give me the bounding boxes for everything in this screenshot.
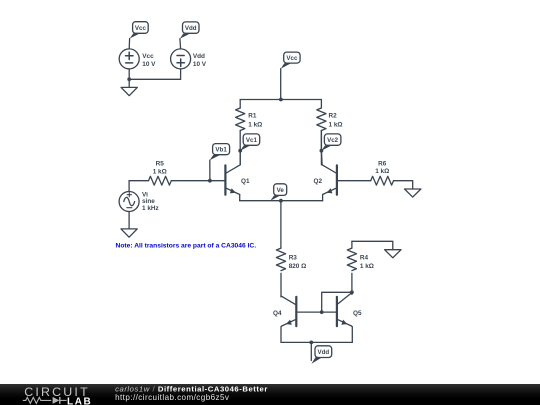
svg-text:1 kΩ: 1 kΩ (329, 121, 343, 128)
wire Vi to R5 (129, 180, 148, 182)
wire Q5 emitter riser (351, 326, 352, 343)
wire Q4 collector to R3 (280, 295, 282, 298)
flag Vcc (center top) (281, 52, 300, 69)
wire Q2 emitter riser (322, 195, 324, 201)
wire Q4-Q5 base rail (296, 311, 337, 313)
wire bottom emitter rail (281, 341, 352, 343)
ground (R4) (385, 250, 401, 258)
junction node Vc1 (238, 149, 242, 153)
resistor R4 1k (347, 241, 356, 292)
wire Q2 collector to R2 (320, 131, 323, 165)
wire Q4 emitter riser (281, 326, 282, 343)
junction node Vdd tap (309, 341, 313, 345)
svg-text:Vcc: Vcc (142, 53, 154, 60)
svg-text:R3: R3 (289, 255, 298, 262)
wire Vi bottom to ground (128, 212, 130, 229)
svg-text:Vdd: Vdd (193, 53, 205, 60)
transistor Q4 NPN (left-facing) (281, 296, 296, 326)
svg-text:1 kΩ: 1 kΩ (360, 263, 374, 270)
wire Q1 collector to R1 (239, 151, 241, 165)
junction node base tap (320, 310, 324, 314)
wire flag Vdd to V2 top (179, 39, 182, 49)
ground (R6) (405, 189, 421, 197)
junction node Ve rail (279, 199, 283, 203)
svg-text:LAB: LAB (67, 396, 92, 405)
wire V2 to V1 bottom rail (129, 78, 180, 80)
junction node top rail (279, 98, 283, 102)
svg-text:1 kΩ: 1 kΩ (248, 121, 262, 128)
flag Vcc (top-left) (130, 22, 149, 39)
svg-text:10 V: 10 V (193, 61, 207, 68)
svg-text:Vb1: Vb1 (215, 147, 227, 154)
wire R6 to ground (394, 181, 413, 189)
wire Q1 emitter riser (239, 195, 241, 201)
svg-text:Vc1: Vc1 (246, 137, 258, 144)
svg-text:R4: R4 (360, 255, 369, 262)
transistor Q1 NPN (225, 165, 240, 195)
svg-text:Ve: Ve (277, 187, 285, 194)
wire Vi top to R5 row (128, 181, 130, 192)
svg-text:1 kΩ: 1 kΩ (153, 168, 167, 175)
junction node at V1 bottom (127, 77, 131, 81)
junction node Vc2 (320, 149, 324, 153)
transistor Q5 NPN (diode-connected) (337, 293, 352, 327)
ground (sources) (121, 87, 137, 95)
resistor R2 1k (317, 100, 326, 165)
wire R4 top to ground (352, 241, 393, 249)
wire Q2 base to R6 (337, 180, 371, 182)
svg-text:R2: R2 (329, 113, 338, 120)
flag Vc1 (240, 134, 260, 151)
wire Q5 collector to R4 node (351, 292, 353, 294)
logo resistor-diode glyph (23, 397, 67, 404)
svg-text:1 kHz: 1 kHz (142, 205, 159, 212)
wire V2 bottom down (180, 69, 182, 79)
resistor R1 1k (236, 100, 245, 165)
wire R5 to Q1 base (171, 180, 225, 182)
junction node R4 bottom (350, 290, 354, 294)
resistor R5 1k (149, 176, 172, 185)
svg-text:820 Ω: 820 Ω (289, 263, 307, 270)
svg-text:Vcc: Vcc (286, 55, 298, 62)
voltage source V1 Vcc 10V (119, 49, 139, 69)
ground (Vi) (121, 229, 137, 237)
svg-text:Q1: Q1 (241, 178, 250, 185)
svg-text:Q5: Q5 (353, 310, 362, 317)
flag Ve (270, 184, 286, 201)
voltage source V2 Vdd 10V (inverted) (171, 49, 191, 69)
wire top rail R1-R2 (240, 99, 321, 101)
flag Vdd (bottom) (312, 346, 332, 364)
svg-text:Note: All transistors are part: Note: All transistors are part of a CA30… (116, 243, 257, 250)
transistor Q2 NPN (mirrored) (322, 165, 337, 195)
wire Vb1 to base (209, 160, 211, 181)
wire Vdd flag stub (310, 342, 312, 360)
wire V1 bottom to ground (128, 69, 130, 88)
svg-text:R6: R6 (378, 161, 387, 168)
svg-text:Vcc: Vcc (135, 25, 147, 32)
svg-text:Vc2: Vc2 (327, 137, 339, 144)
svg-text:10 V: 10 V (142, 61, 156, 68)
wire flag Vcc to V1 top (128, 39, 130, 49)
junction node Vb1 tap (208, 179, 212, 183)
flag Vdd (top-left) (180, 22, 199, 39)
svg-text:Q4: Q4 (273, 310, 282, 317)
wire emitter rail (240, 200, 323, 202)
svg-text:http://circuitlab.com/cgb6z5v: http://circuitlab.com/cgb6z5v (115, 393, 230, 402)
resistor R3 820 (276, 248, 285, 297)
svg-text:R5: R5 (156, 161, 165, 168)
flag Vb1 (210, 144, 230, 161)
wire base tap up and right to R4 node (322, 292, 352, 312)
voltage source Vi sine 1kHz (119, 192, 139, 212)
svg-text:1 kΩ: 1 kΩ (375, 168, 389, 175)
svg-text:R1: R1 (248, 113, 257, 120)
svg-text:Vdd: Vdd (317, 349, 329, 356)
wire Ve node down to R3 (280, 201, 282, 248)
resistor R6 1k (371, 176, 394, 185)
svg-text:Vdd: Vdd (185, 25, 197, 32)
flag Vc2 (321, 134, 341, 151)
svg-text:Q2: Q2 (314, 178, 323, 185)
wire Vcc flag to top rail (280, 69, 282, 100)
